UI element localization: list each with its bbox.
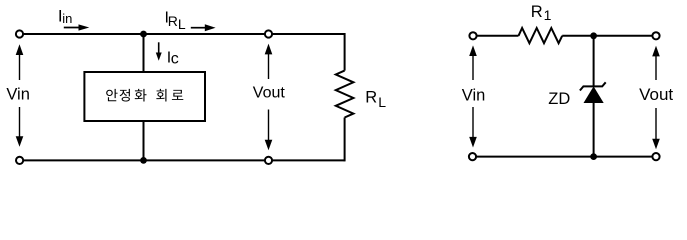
- arrow: Vin up arrow: [16, 44, 24, 55]
- svg-text:L: L: [378, 94, 386, 110]
- svg-text:Vin: Vin: [6, 86, 30, 104]
- svg-text:R: R: [168, 13, 178, 29]
- svg-text:Vout: Vout: [639, 85, 673, 104]
- terminal: right circuit bottom-right: [652, 153, 659, 160]
- terminal: right circuit top-right: [652, 32, 659, 39]
- arrow: Iin current direction: [64, 27, 80, 29]
- wire: right circuit bottom rail: [473, 156, 657, 158]
- terminal: left circuit top-right: [265, 30, 272, 37]
- svg-text:in: in: [62, 11, 72, 26]
- terminal: left circuit top-left: [16, 30, 23, 37]
- wire: left circuit top rail: [20, 33, 345, 35]
- arrow: Vout right up arrow: [652, 46, 660, 57]
- wire: left circuit right branch lower lead: [344, 118, 346, 162]
- node: junction dot bottom (left circuit): [140, 157, 147, 164]
- svg-text:c: c: [171, 50, 179, 67]
- arrow: Vout up arrow: [265, 44, 273, 55]
- zener diode ZD: [593, 36, 595, 87]
- zener triangle: [584, 86, 604, 103]
- svg-text:L: L: [178, 16, 186, 32]
- arrow: Vin down arrow: [19, 107, 21, 137]
- svg-text:R: R: [365, 88, 377, 106]
- wire: left circuit right branch upper lead: [344, 33, 346, 71]
- terminal: right circuit top-left: [469, 32, 476, 39]
- zener cathode bar with hooks: [580, 82, 606, 90]
- wire: zener anode to bottom rail: [593, 103, 595, 157]
- svg-text:Vin: Vin: [462, 86, 486, 104]
- wire: right circuit top rail left lead: [473, 35, 519, 37]
- arrow: Vout right down arrow: [655, 108, 657, 140]
- label: box text 안정화 회로: [106, 89, 117, 101]
- terminal: right circuit bottom-left: [469, 153, 476, 160]
- wire: box bottom to bottom junction: [143, 121, 145, 160]
- wire: left circuit bottom rail: [20, 159, 345, 161]
- node: junction dot top (right circuit): [590, 32, 597, 39]
- terminal: left circuit bottom-right: [265, 157, 272, 164]
- node: junction dot top (left circuit): [140, 31, 147, 38]
- arrow: Vin right up arrow: [469, 45, 477, 56]
- arrow: Vout down arrow: [268, 110, 270, 141]
- resistor R1 zigzag: [519, 28, 563, 43]
- wire: right circuit top rail right lead: [562, 35, 656, 37]
- arrow: Vin right down arrow: [472, 107, 474, 138]
- arrow: Ic current direction: [158, 42, 160, 53]
- node: junction dot bottom (right circuit): [590, 153, 597, 160]
- resistor RL zigzag: [336, 71, 354, 118]
- arrow: IRL current direction: [191, 27, 206, 29]
- regulator box U1: [84, 72, 205, 121]
- wire: junction to box top: [143, 34, 145, 72]
- svg-text:R: R: [531, 3, 543, 21]
- svg-text:Vout: Vout: [253, 85, 286, 102]
- svg-text:ZD: ZD: [548, 90, 570, 108]
- svg-text:1: 1: [544, 7, 552, 23]
- terminal: left circuit bottom-left: [16, 157, 23, 164]
